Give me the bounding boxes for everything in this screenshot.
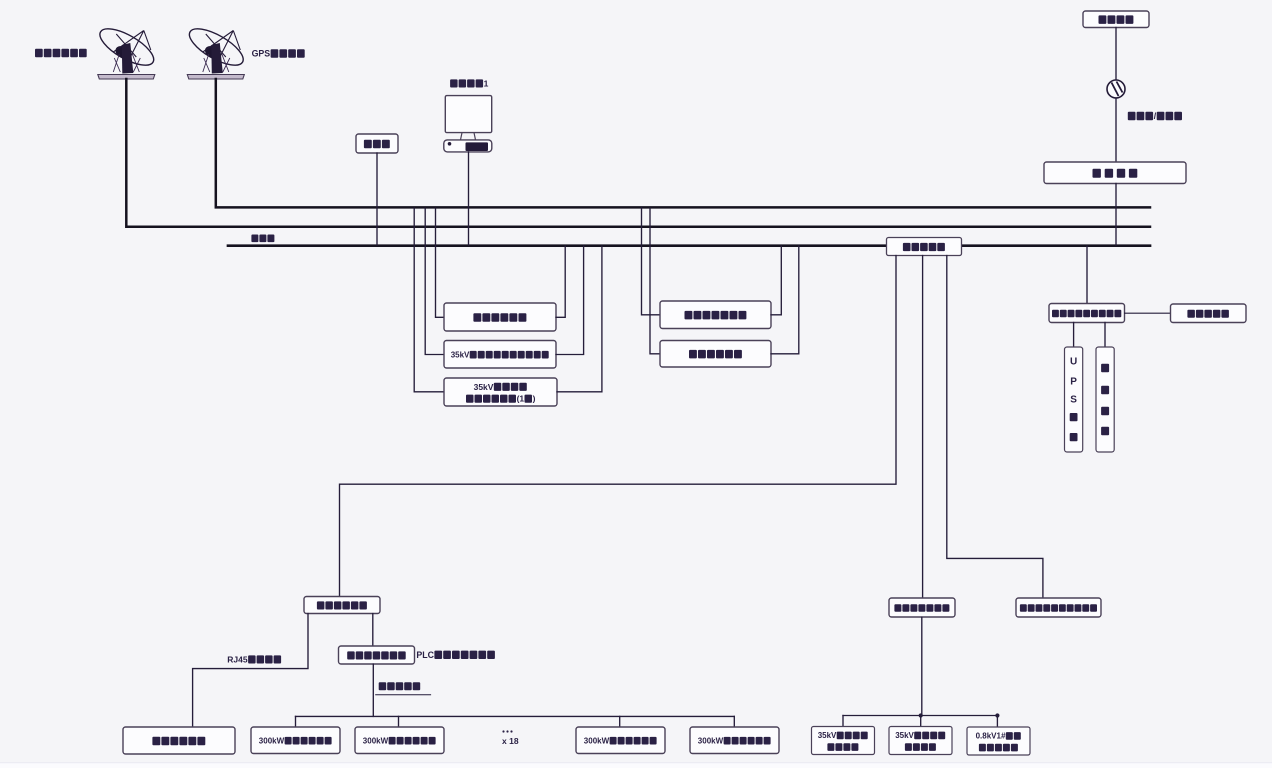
wire switch to 电能质量在线监测装置 (elbow) <box>947 256 1043 599</box>
bus C 监控网 <box>228 244 1150 247</box>
label 电能表计 <box>827 743 858 751</box>
svg-text:PLC: PLC <box>416 650 434 660</box>
label 低压电能表 <box>979 744 1018 752</box>
wire 调度中心 down <box>1115 28 1117 81</box>
label 35kV并网线路保护测控装置 <box>451 351 549 360</box>
label 监控主机1 <box>450 79 489 89</box>
wire bus C to 电源及环境监测装置 <box>1086 246 1088 303</box>
satellite dish GPS time-sync antenna <box>184 22 248 79</box>
box 35kV并网线路保护测控装置 <box>123 208 1246 755</box>
wire switch to 数据采集装置 (long elbow) <box>340 256 897 597</box>
label 电能量采集装置 <box>894 604 949 612</box>
wire bus A to 防孤岛保护装置 left <box>642 208 661 315</box>
svg-text:300kW: 300kW <box>363 737 389 746</box>
svg-text:P: P <box>1070 377 1077 388</box>
wire bus A to 公用测控装置 left <box>436 208 445 317</box>
wire 监控主机1 to bus C <box>468 152 470 245</box>
wire 公用测控装置 right to bus C <box>556 246 565 317</box>
box 300kW组串式逆变器 #2 <box>355 598 1101 755</box>
label 电能表计 <box>905 743 936 751</box>
wire drop to inverter 4 <box>733 716 735 727</box>
label 数据采集装置 <box>317 601 367 609</box>
svg-text:(1: (1 <box>517 394 525 404</box>
label 电能质量在线监测装置 <box>1020 604 1097 611</box>
svg-text:RJ45: RJ45 <box>227 655 248 665</box>
wire switch to 电能量采集装置 <box>922 256 924 599</box>
label 35kV并网线路 <box>818 731 868 740</box>
svg-text:0.8kV1#: 0.8kV1# <box>976 732 1006 741</box>
label 300kW组串式逆变器 <box>584 737 657 746</box>
wire 防孤岛保护装置 right to bus C <box>771 246 781 315</box>
junction dot meter trunk center <box>919 713 923 717</box>
monitor icon 监控主机1 <box>444 96 492 152</box>
box 300kW组串式逆变器 #1 <box>251 598 1101 755</box>
label 300kW组串式逆变器 <box>698 737 771 746</box>
label 300kW组串式逆变器 <box>363 737 436 746</box>
label 0.8kV1#箱变 <box>976 732 1021 741</box>
box 35kV集电线路保护测控装置(1台) <box>123 208 1246 755</box>
wire drop to inverter 1 <box>295 716 297 727</box>
wire 故障解列装置 right to bus C <box>771 246 799 354</box>
label 载波机/光端机 <box>1128 111 1182 121</box>
box 环境监测仪 <box>123 304 1246 755</box>
svg-text:35kV: 35kV <box>895 731 914 740</box>
label 远 动 设 备 <box>1093 169 1138 178</box>
wire circle to 远动设备 <box>1115 98 1117 162</box>
box 35kV并网线路电能表计 #2 <box>889 598 1101 755</box>
wire 智能光伏控制器 down to inverter trunk <box>372 664 374 716</box>
svg-text:300kW: 300kW <box>259 737 285 746</box>
box 组网交换机 <box>123 238 1246 756</box>
box 防孤岛保护装置 <box>123 238 1246 756</box>
label 调度中心 <box>1099 15 1134 24</box>
box 0.8kV1#箱变低压电能表 <box>967 598 1101 755</box>
label GPS对时装置 <box>252 49 305 59</box>
svg-text:300kW: 300kW <box>698 737 724 746</box>
box 数据采集装置 <box>123 597 1101 756</box>
wire drop to inverter 3 <box>619 716 621 727</box>
svg-text:U: U <box>1070 357 1077 368</box>
wire dish2 drop + bus A (monitoring net A) <box>216 79 1150 207</box>
box 电能量采集装置 <box>812 598 1102 755</box>
wire meter trunk <box>843 715 997 717</box>
svg-text:S: S <box>1070 395 1077 406</box>
wire to UPS电源 <box>1073 323 1075 348</box>
svg-text:x 18: x 18 <box>502 736 519 746</box>
svg-text:): ) <box>533 394 536 404</box>
wire inverter trunk <box>296 715 735 717</box>
wire 上位机 to bus C <box>376 153 378 245</box>
label 35kV集电线路 <box>474 382 527 392</box>
box 智能光伏控制器 <box>251 598 1101 755</box>
wire to 直流电源 <box>1104 323 1106 348</box>
wire bus A to 35kV并网线路保护 left <box>425 208 444 355</box>
box 公用测控装置 <box>123 208 1246 755</box>
wire drop to meter 3 <box>996 716 998 728</box>
wire 数据采集装置 to 箱变测控装置 (RJ45 elbow) <box>193 614 308 727</box>
box 300kW组串式逆变器 #4 <box>502 598 1101 755</box>
wire bus A to 35kV集电线路保护 left <box>414 208 444 392</box>
label 上位机 <box>364 140 390 149</box>
box 直流电源 (vertical) <box>1096 347 1114 452</box>
label PLC电力线载波通讯 <box>416 650 495 660</box>
wire 电源及环境监测装置 to 环境监测仪 <box>1125 312 1171 314</box>
label 电力线载波 <box>379 682 421 690</box>
ellipsis dots between inverters <box>502 730 512 732</box>
wire bus A to 故障解列装置 left <box>650 208 660 354</box>
box 电能质量在线监测装置 <box>1016 598 1101 617</box>
label 35kV并网线路 <box>895 731 945 740</box>
svg-text:35kV: 35kV <box>818 731 837 740</box>
wire drop to meter 1 <box>842 716 844 727</box>
box 远动设备 <box>123 162 1246 755</box>
wire drop to inverter 2 <box>398 716 400 727</box>
label 300kW组串式逆变器 <box>259 737 332 746</box>
label 环境监测仪 <box>1187 310 1229 318</box>
label 监控网 <box>251 235 274 243</box>
wire 35kV集电线路保护 right to bus C <box>557 246 602 392</box>
box 箱变测控装置 <box>123 598 1101 755</box>
label 防孤岛保护装置 <box>685 311 747 320</box>
label 电源及环境监测装置 <box>1052 310 1121 317</box>
svg-text:35kV: 35kV <box>451 351 470 360</box>
wire 电能量采集装置 down <box>921 617 923 715</box>
label 北斗对时装置 <box>35 49 87 57</box>
junction dot meter trunk right <box>995 713 999 717</box>
wire 数据采集装置 to 智能光伏控制器 <box>372 614 374 646</box>
wire underline of 电力线载波 <box>376 694 431 696</box>
svg-text:GPS: GPS <box>252 49 271 59</box>
label 箱变测控装置 <box>152 737 205 746</box>
svg-text:1: 1 <box>484 79 489 89</box>
box UPS电源 (vertical) <box>1065 347 1083 452</box>
label 保护测控装置(1台) <box>466 394 536 404</box>
wire 远动设备 to bus C <box>1115 184 1117 246</box>
label 智能光伏控制器 <box>347 651 406 659</box>
wire drop to meter 2 <box>920 716 922 727</box>
label 组网交换机 <box>903 243 945 251</box>
box 35kV并网线路电能表计 #1 <box>812 598 1102 755</box>
svg-text:300kW: 300kW <box>584 737 610 746</box>
label 故障解列装置 <box>689 350 742 359</box>
label RJ45或光网线 <box>227 655 281 665</box>
wire dish1 drop + bus B (monitoring net B) <box>126 79 1150 227</box>
label 公用测控装置 <box>473 313 526 322</box>
box 电源及环境监测装置 <box>123 304 1246 756</box>
carrier/modem circle symbol <box>1107 80 1125 98</box>
satellite dish BeiDou time-sync antenna <box>95 22 159 79</box>
scan artifact: light band at bottom edge <box>0 763 1272 768</box>
box 故障解列装置 <box>123 238 1246 756</box>
svg-text:35kV: 35kV <box>474 382 494 392</box>
wire 35kV并网线路保护 right to bus C <box>556 246 584 355</box>
box 300kW组串式逆变器 #3 <box>502 598 1101 755</box>
